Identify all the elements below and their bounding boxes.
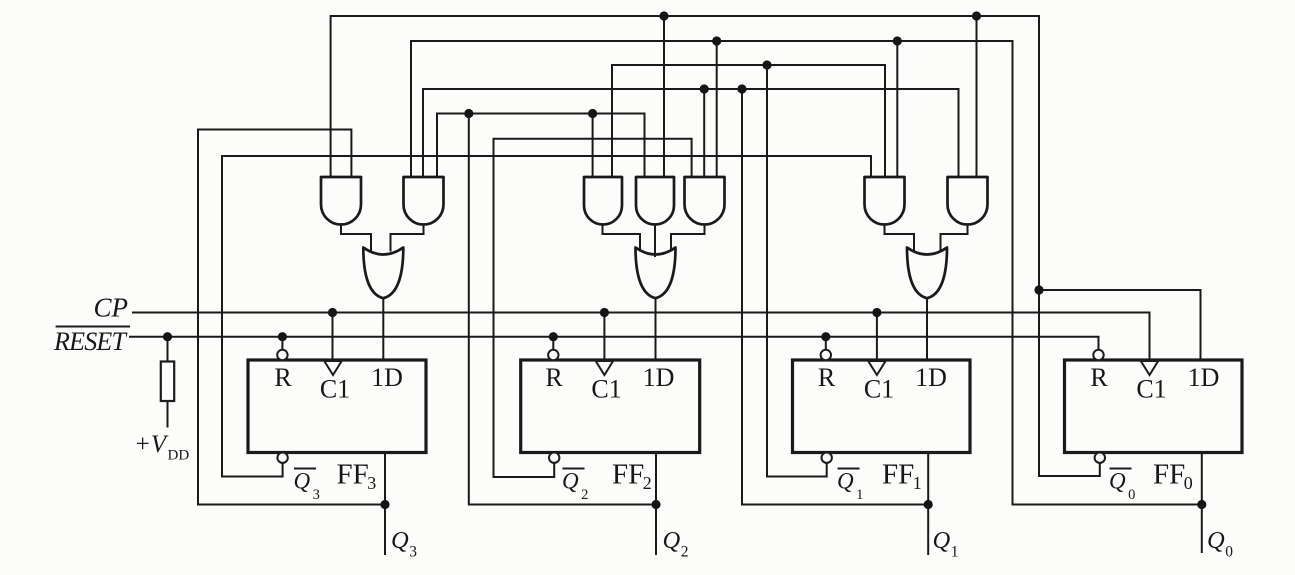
junction dot CP to C1 FF3 xyxy=(328,308,337,317)
svg-text:Q1: Q1 xyxy=(837,469,863,504)
svg-text:Q2: Q2 xyxy=(663,527,689,561)
Q-bar output bubble FF1 xyxy=(822,453,832,463)
svg-text:C1: C1 xyxy=(320,375,350,404)
R input bubble FF0 xyxy=(1093,350,1103,360)
junction dot RESET to resistor xyxy=(163,332,172,341)
Q-bar output bubble FF0 xyxy=(1095,453,1105,463)
svg-text:C1: C1 xyxy=(864,375,894,404)
C1 dynamic-input triangle FF0 xyxy=(1141,361,1158,375)
flip-flop FF2 box xyxy=(521,360,700,453)
junction dot Q-bar-0 to FF1 AND xyxy=(972,11,981,20)
label Q-bar-2 under FF2 xyxy=(562,469,588,504)
svg-text:Q1: Q1 xyxy=(933,527,959,561)
flip-flop FF3 box xyxy=(248,360,426,453)
svg-text:C1: C1 xyxy=(1136,375,1166,404)
wire net Q2 bus (y=113.5) and Q2 output xyxy=(437,114,656,555)
AND gate G6 (FF1 left, 3-input) xyxy=(865,177,905,225)
wire OR2 output to 1D of FF2 xyxy=(655,298,657,361)
wire OR1 output to 1D of FF1 xyxy=(926,298,928,361)
wire CP clock line xyxy=(133,313,1150,362)
svg-text:1D: 1D xyxy=(371,363,403,392)
wire AND G5 output to OR2 xyxy=(671,225,705,251)
wire net Q-bar-3 bus (y=156) xyxy=(222,156,871,477)
R input bubble FF3 xyxy=(277,350,287,360)
junction dot Q3 output xyxy=(380,500,389,509)
wire net Q1 bus (y=89) and Q1 output xyxy=(423,89,959,554)
label Q-bar-3 under FF3 xyxy=(294,469,320,504)
junction dot Q1 to FF2 AND xyxy=(700,84,709,93)
wire AND G2 output to OR3 xyxy=(391,225,424,251)
wire net Q3 bus (y=129.5) and Q3 output xyxy=(198,130,385,555)
flip-flop FF0 box xyxy=(1065,360,1243,453)
junction dot Q2 output xyxy=(651,500,660,509)
wire AND G6 output to OR1 xyxy=(885,225,915,251)
svg-text:CP: CP xyxy=(94,293,129,323)
AND gate G4 (FF2 middle) xyxy=(636,177,674,225)
OR gate OR2 (feeds 1D of FF2) xyxy=(636,248,676,299)
junction dot CP to C1 FF1 xyxy=(872,308,881,317)
svg-text:Q2: Q2 xyxy=(562,469,588,504)
svg-text:FF1: FF1 xyxy=(882,459,922,494)
AND gate G5 (FF2 right, 3-input) xyxy=(685,177,725,225)
R input bubble FF1 xyxy=(821,350,831,360)
svg-text:R: R xyxy=(818,363,836,392)
flip-flop FF1 box xyxy=(793,360,971,453)
wire net Q-bar-0 bus (top line y=16) xyxy=(331,16,1201,476)
junction dot Q0 output xyxy=(1197,500,1206,509)
label Q-bar-0 under FF0 xyxy=(1109,469,1135,504)
junction dot Q0 to FF2 AND xyxy=(712,36,721,45)
svg-text:1D: 1D xyxy=(643,363,675,392)
junction dot Q1 bus tap xyxy=(737,84,746,93)
C1 dynamic-input triangle FF1 xyxy=(868,361,885,375)
Q-bar output bubble FF2 xyxy=(549,453,559,463)
junction dot CP to C1 FF2 xyxy=(600,308,609,317)
wire AND G3 output to OR2 xyxy=(603,225,641,251)
svg-text:R: R xyxy=(545,363,563,392)
svg-text:FF2: FF2 xyxy=(612,459,652,494)
OR gate OR3 (feeds 1D of FF3) xyxy=(363,248,403,299)
svg-text:RESET: RESET xyxy=(53,327,128,356)
junction dot RESET to R FF3 xyxy=(278,332,287,341)
label Q-bar-1 under FF1 xyxy=(837,469,863,504)
AND gate G2 (FF3 right, 3-input) xyxy=(404,177,444,225)
AND gate G7 (FF1 right) xyxy=(948,177,988,225)
svg-text:R: R xyxy=(1090,363,1108,392)
junction dot Q-bar-1 bus tap xyxy=(762,60,771,69)
junction dot Q2 bus tap xyxy=(464,109,473,118)
wire net Q0 bus (y=41) and Q0 output xyxy=(411,41,1202,552)
svg-text:DD: DD xyxy=(168,448,190,464)
wire resistor bottom lead to +VDD xyxy=(167,401,169,427)
svg-text:1D: 1D xyxy=(1188,363,1220,392)
junction dot Q0 to FF1 AND xyxy=(893,36,902,45)
junction dot Q-bar-0 branch to 1D FF0 xyxy=(1034,285,1043,294)
AND gate G1 (FF3 left) xyxy=(321,177,361,225)
wire AND G4 output to OR2 xyxy=(654,225,656,257)
wire net Q-bar-2 bus (y=138.7) xyxy=(494,139,692,477)
OR gate OR1 (feeds 1D of FF1) xyxy=(907,248,947,299)
junction dot Q1 output xyxy=(924,500,933,509)
C1 dynamic-input triangle FF3 xyxy=(324,361,341,375)
Q-bar output bubble FF3 xyxy=(277,453,287,463)
label RESET (with overline) xyxy=(53,327,130,357)
svg-text:C1: C1 xyxy=(591,375,621,404)
C1 dynamic-input triangle FF2 xyxy=(596,361,613,375)
svg-text:+V: +V xyxy=(134,431,169,458)
svg-text:FF3: FF3 xyxy=(337,459,377,494)
junction dot Q2 to FF2 AND xyxy=(588,109,597,118)
wire net Q-bar-1 bus (y=65) xyxy=(612,65,885,477)
wire AND G1 output to OR3 xyxy=(341,225,371,251)
wire OR3 output to 1D of FF3 xyxy=(382,298,384,361)
resistor R (pull-up to +VDD) xyxy=(161,362,174,402)
svg-text:R: R xyxy=(274,363,292,392)
svg-text:FF0: FF0 xyxy=(1153,459,1193,494)
junction dot RESET to R FF1 xyxy=(821,332,830,341)
svg-text:Q3: Q3 xyxy=(391,527,417,561)
svg-text:Q3: Q3 xyxy=(294,469,320,504)
svg-text:Q0: Q0 xyxy=(1207,527,1233,561)
svg-text:1D: 1D xyxy=(915,363,947,392)
svg-text:Q0: Q0 xyxy=(1109,469,1135,504)
junction dot Q-bar-0 to FF2 AND xyxy=(659,11,668,20)
junction dot RESET to R FF2 xyxy=(549,332,558,341)
AND gate G3 (FF2 left) xyxy=(584,177,622,225)
wire AND G7 output to OR1 xyxy=(941,225,968,251)
R input bubble FF2 xyxy=(548,350,558,360)
wire RESET line xyxy=(130,337,1099,362)
